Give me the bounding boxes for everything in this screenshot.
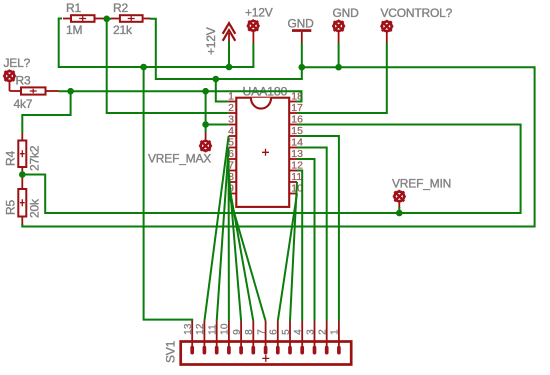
svg-text:3: 3	[228, 114, 234, 126]
svg-text:9: 9	[232, 329, 243, 335]
junction VREF_MAX pad	[202, 121, 209, 128]
wire R3 to IC pin 18	[59, 91, 302, 101]
wire R3 junction down to R4	[22, 91, 70, 133]
wire +12V to SV1 pin 13	[144, 67, 193, 322]
label R3	[14, 74, 33, 112]
wire IC pin 11 to SV1 pin 5	[290, 182, 297, 321]
label GND pad	[333, 6, 360, 20]
svg-text:+12V: +12V	[245, 6, 273, 20]
label +12V rotated (supply arrow)	[204, 27, 218, 55]
wire junction to IC pin 1	[216, 79, 229, 102]
svg-text:VREF_MIN: VREF_MIN	[392, 177, 451, 191]
svg-text:21k: 21k	[113, 23, 133, 37]
IC pin numbers left	[228, 91, 234, 195]
pad GND	[332, 20, 345, 33]
wire IC pin 4 to SV1 pin 12	[204, 136, 228, 321]
svg-text:13: 13	[183, 323, 194, 335]
svg-text:+12V: +12V	[204, 27, 218, 55]
junction R3 output	[67, 88, 74, 95]
wire R1 right to junction	[104, 18, 111, 20]
pad stub VREF_MIN	[398, 202, 400, 208]
svg-text:GND: GND	[333, 6, 360, 20]
wire IC pin 7 to SV1 pin 9	[229, 171, 242, 322]
IC pin stubs left 1-9	[229, 102, 237, 194]
label R1	[66, 1, 82, 37]
svg-text:11: 11	[208, 324, 219, 335]
label +12V pad	[245, 6, 273, 20]
svg-text:VCONTROL?: VCONTROL?	[381, 6, 453, 20]
svg-text:1: 1	[228, 91, 234, 103]
resistor R4	[18, 133, 26, 177]
pad stub VCONTROL	[386, 32, 388, 44]
svg-text:R5: R5	[4, 200, 18, 215]
svg-text:R3: R3	[16, 74, 31, 88]
wire R2 right to GND net	[150, 19, 216, 79]
op-amp U1 UAA180 IC body	[236, 98, 289, 207]
svg-text:5: 5	[281, 329, 292, 335]
junction R1-R2	[103, 15, 110, 22]
GND symbol (bar)	[292, 29, 311, 43]
wire R1-R2 junction to IC pin 2	[107, 19, 229, 113]
junction GND bar	[299, 64, 306, 71]
pad stub GND	[338, 31, 340, 43]
pad JEL?	[3, 69, 16, 82]
label R5 rotated	[4, 198, 42, 218]
svg-text:JEL?: JEL?	[4, 56, 31, 70]
label JEL?	[4, 56, 31, 70]
pad +12V	[247, 19, 260, 32]
SV1 pads 13..1	[192, 348, 339, 353]
label R4 rotated	[4, 145, 42, 171]
wire VCONTROL to IC pin 17	[297, 43, 387, 113]
label UAA180	[243, 85, 288, 99]
svg-text:1: 1	[330, 329, 341, 335]
svg-text:7: 7	[256, 329, 267, 335]
junction VREF_MIN	[396, 210, 403, 217]
wire R4-R5 junction via VREF_MIN to IC pin 16	[22, 125, 520, 214]
wire GND pad riser	[338, 43, 340, 67]
label VCONTROL?	[381, 6, 453, 20]
wire +12V rail	[59, 19, 254, 68]
pad stub VREF_MAX	[205, 131, 207, 141]
resistor R3	[10, 87, 60, 94]
wire IC pin 10 to SV1 pin 6	[278, 194, 297, 322]
wire VREF_MIN pad stub green	[398, 207, 400, 213]
wire IC pin 12 to SV1 pin 4	[297, 171, 302, 322]
pad stub JEL	[9, 81, 11, 91]
svg-text:2: 2	[318, 329, 329, 335]
junction GND to pin 1	[213, 76, 220, 83]
wire IC pin 8 to SV1 pin 8	[229, 182, 254, 321]
resistor R1	[63, 15, 105, 22]
svg-text:R4: R4	[4, 151, 18, 166]
label VREF_MIN	[392, 177, 451, 191]
svg-text:6: 6	[269, 329, 280, 335]
pad VCONTROL?	[380, 20, 393, 33]
svg-text:12: 12	[195, 323, 206, 335]
svg-text:R1: R1	[66, 1, 81, 15]
svg-text:SV1: SV1	[164, 340, 178, 363]
wire IC pin 9 to SV1 pin 7	[229, 194, 266, 322]
label GND symbol	[288, 17, 315, 31]
junction +12V rail / SV13 drop	[140, 64, 147, 71]
wire VREF_MAX pad stub green	[205, 125, 207, 133]
svg-text:R2: R2	[113, 1, 128, 15]
junction R4-R5	[19, 171, 26, 178]
wire GND bar riser	[301, 43, 303, 67]
IC pin numbers right	[291, 91, 303, 195]
svg-text:20k: 20k	[28, 198, 42, 218]
junction VREF_MAX branch	[202, 88, 209, 95]
SV1 pin stubs (red)	[192, 321, 339, 347]
+12V supply arrow symbol	[223, 23, 236, 43]
pad VREF_MAX	[199, 139, 212, 152]
svg-text:VREF_MAX: VREF_MAX	[148, 152, 211, 166]
wire IC pin 6 to SV1 pin 10	[228, 159, 230, 321]
wire GND rail	[22, 67, 534, 226]
resistor R2	[111, 15, 151, 22]
wire IC pin 13 to SV1 pin 3	[297, 159, 315, 321]
svg-text:2: 2	[228, 102, 234, 114]
junction GND pad	[335, 64, 342, 71]
pad VREF_MIN	[393, 190, 406, 203]
label SV1 rotated	[164, 340, 178, 363]
svg-text:27k2: 27k2	[28, 145, 42, 171]
wire IC pin 14 to SV1 pin 2	[297, 148, 327, 322]
SV1 pin numbers 13..1 rotated	[183, 323, 341, 335]
svg-text:GND: GND	[288, 17, 315, 31]
wire VREF_MAX branch to IC pin 3	[206, 91, 229, 124]
connector SV1 body	[181, 342, 352, 365]
wire chevron riser	[228, 42, 230, 68]
junction +12V rail / chevron	[226, 64, 233, 71]
wire IC pin 15 to SV1 pin 1	[297, 136, 339, 321]
IC pin stubs right 18-10	[289, 102, 297, 194]
svg-text:3: 3	[305, 329, 316, 335]
svg-text:1M: 1M	[66, 23, 82, 37]
svg-text:4: 4	[293, 329, 304, 335]
wire IC pin 5 to SV1 pin 11	[217, 148, 229, 322]
resistor R5	[18, 176, 26, 225]
svg-text:8: 8	[244, 329, 255, 335]
svg-text:10: 10	[220, 323, 231, 335]
svg-text:4: 4	[228, 125, 234, 137]
label R2	[113, 1, 133, 37]
svg-text:11: 11	[291, 171, 302, 183]
label VREF_MAX	[148, 152, 211, 166]
svg-text:4k7: 4k7	[14, 97, 33, 111]
pad stub +12V	[252, 31, 254, 44]
wire GND net horizontal to riser	[216, 67, 302, 79]
